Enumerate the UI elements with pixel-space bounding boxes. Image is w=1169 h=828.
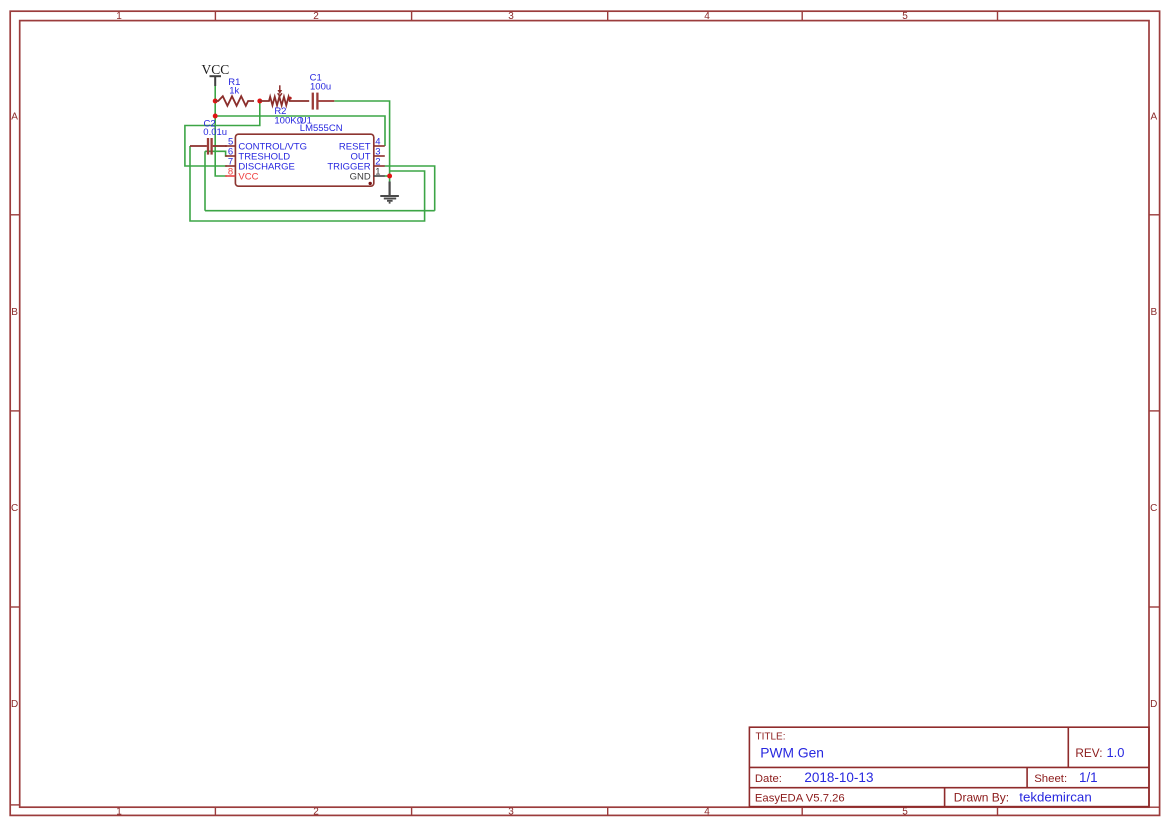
svg-text:1.0: 1.0 (1107, 745, 1125, 760)
svg-text:A: A (1150, 111, 1157, 122)
C2 leads (190, 145, 227, 147)
svg-text:0.01u: 0.01u (203, 127, 227, 138)
svg-text:TITLE:: TITLE: (756, 731, 786, 742)
U1 pin 1 stub (374, 175, 385, 177)
svg-text:VCC: VCC (238, 171, 258, 182)
U1 pin 6 stub (225, 155, 235, 157)
resistor R1 (215, 96, 254, 106)
junction dot at R1/R2 (257, 99, 262, 104)
svg-text:1/1: 1/1 (1079, 770, 1098, 785)
R2 wiper arrow (278, 85, 283, 96)
U1 pin 2 stub (374, 165, 385, 167)
svg-text:GND: GND (350, 172, 371, 183)
junction dot at VCC/R1 (213, 99, 218, 104)
svg-text:EasyEDA V5.7.26: EasyEDA V5.7.26 (755, 792, 845, 804)
svg-text:8: 8 (228, 167, 233, 178)
svg-text:1: 1 (116, 807, 122, 818)
frame column numbers bottom (116, 807, 908, 818)
svg-text:Drawn By:: Drawn By: (954, 790, 1009, 804)
svg-text:D: D (11, 699, 18, 710)
ground symbol (380, 182, 399, 203)
wire VCC to RESET pin4 (215, 116, 385, 146)
C1 right lead (319, 100, 335, 102)
R2 wiper terminal dot (289, 97, 292, 100)
svg-text:4: 4 (704, 11, 710, 22)
op-amp U1 LM555CN body (235, 134, 373, 186)
svg-text:PWM Gen: PWM Gen (760, 745, 824, 760)
U1 pin 3 stub (374, 155, 385, 157)
svg-text:C: C (11, 503, 18, 514)
wire C1 right to ground node (334, 101, 389, 176)
svg-text:3: 3 (508, 11, 514, 22)
U1 pin 8 stub (225, 175, 235, 177)
svg-text:5: 5 (902, 807, 908, 818)
U1 polarity dot (369, 182, 372, 185)
wire trigger pin2 to right vertical (385, 166, 435, 211)
svg-text:B: B (1150, 307, 1157, 318)
wire threshold-trigger link bottom (205, 210, 435, 212)
svg-text:3: 3 (508, 807, 514, 818)
wire discharge net: R1/R2 node to pin7 (185, 101, 260, 166)
frame row letters right (1150, 111, 1157, 710)
svg-text:100u: 100u (310, 82, 331, 93)
svg-text:Date:: Date: (755, 773, 782, 785)
wire pin1 to ground junction (385, 175, 390, 177)
potentiometer R2 (260, 97, 309, 106)
U1 pin 7 stub (225, 165, 235, 167)
svg-text:tekdemircan: tekdemircan (1019, 790, 1091, 805)
svg-text:2: 2 (313, 11, 319, 22)
svg-text:1k: 1k (229, 85, 239, 96)
svg-text:A: A (11, 111, 18, 122)
wire threshold-trigger link left vertical (204, 151, 206, 210)
svg-text:B: B (11, 307, 18, 318)
svg-text:VCC: VCC (202, 62, 230, 77)
capacitor C2 (208, 138, 212, 155)
svg-text:LM555CN: LM555CN (300, 123, 343, 134)
svg-text:1: 1 (116, 11, 122, 22)
frame column numbers top (116, 11, 908, 22)
svg-text:5: 5 (902, 11, 908, 22)
frame row ticks left (10, 215, 20, 805)
wire VCC stem (214, 86, 216, 101)
wire threshold pin6 jog (205, 151, 227, 156)
svg-text:D: D (1150, 699, 1157, 710)
svg-text:4: 4 (704, 807, 710, 818)
svg-text:REV:: REV: (1075, 746, 1102, 760)
junction dot ground at pin1 (387, 174, 392, 179)
wire VCC vertical to pin8 (215, 101, 227, 176)
svg-text:2018-10-13: 2018-10-13 (804, 770, 873, 785)
power flag VCC bar (210, 76, 222, 86)
title block outline (749, 727, 1149, 806)
frame row ticks right (1149, 215, 1160, 807)
U1 pin 4 stub (374, 145, 385, 147)
junction dot VCC branch (213, 114, 218, 119)
capacitor C1 (313, 93, 318, 110)
frame column ticks bottom (215, 807, 997, 816)
frame column ticks top (215, 11, 997, 20)
svg-text:C: C (1150, 503, 1157, 514)
svg-text:1: 1 (375, 167, 380, 178)
svg-text:2: 2 (313, 807, 319, 818)
U1 pin 5 stub (225, 145, 235, 147)
frame row letters left (11, 111, 18, 710)
wire ground junction to ground symbol (389, 176, 391, 183)
svg-text:Sheet:: Sheet: (1034, 773, 1067, 785)
wire C2 left to ground loop (190, 146, 425, 221)
